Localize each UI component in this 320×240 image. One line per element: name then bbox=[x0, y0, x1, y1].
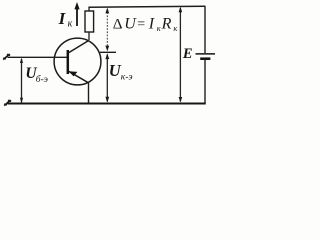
dimension arrow Uк-э (tick to bottom rail) bbox=[105, 53, 109, 102]
transistor VT (PNP) bbox=[54, 38, 101, 85]
label Iк bbox=[58, 9, 73, 30]
svg-text:Δ: Δ bbox=[113, 16, 123, 33]
dimension arrow Uб-э bbox=[20, 58, 23, 103]
svg-text:R: R bbox=[161, 16, 172, 33]
wire top rail bbox=[89, 6, 206, 7]
label Uб-э bbox=[25, 65, 48, 85]
svg-text:U: U bbox=[124, 16, 137, 33]
svg-text:=: = bbox=[137, 17, 145, 32]
terminal break symbol (base input) bbox=[3, 54, 10, 60]
svg-text:к: к bbox=[68, 18, 73, 29]
dimension arrow ΔU (top rail to divider tick) bbox=[105, 8, 109, 52]
svg-text:б-э: б-э bbox=[36, 74, 48, 85]
wire bottom rail bbox=[8, 103, 206, 105]
current arrow Iк bbox=[74, 2, 79, 26]
wire base lead bbox=[8, 56, 68, 58]
dimension arrow E (top rail to bottom rail) bbox=[179, 7, 183, 103]
resistor Rк bbox=[85, 7, 94, 40]
svg-text:U: U bbox=[109, 61, 122, 80]
terminal break symbol (common, bottom left) bbox=[4, 100, 11, 106]
svg-text:E: E bbox=[182, 46, 193, 62]
battery E (cell symbol) bbox=[196, 54, 216, 59]
wire right side upper bbox=[204, 6, 206, 53]
label formula ΔU = Iк Rк bbox=[113, 16, 179, 34]
wire emitter to bottom rail bbox=[88, 83, 90, 104]
svg-text:I: I bbox=[148, 16, 155, 33]
wire right side lower bbox=[204, 60, 206, 104]
node divider tick between ΔU and Uк-э bbox=[100, 51, 116, 53]
svg-text:к-э: к-э bbox=[121, 72, 133, 82]
label Uк-э bbox=[109, 61, 133, 83]
